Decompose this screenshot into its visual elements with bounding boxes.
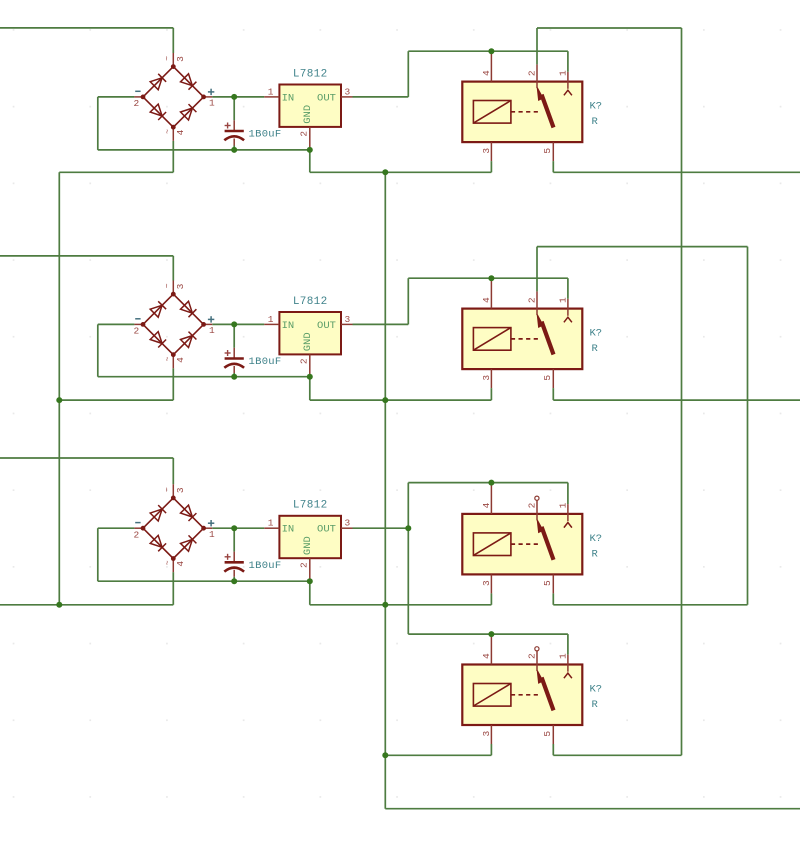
junction K4 coil xyxy=(488,631,494,637)
svg-text:~: ~ xyxy=(164,487,173,492)
svg-text:~: ~ xyxy=(164,560,173,565)
junction K2 coil xyxy=(488,275,494,281)
wire relay2 pin2 top xyxy=(537,246,748,248)
svg-text:4: 4 xyxy=(481,502,492,508)
wire relay K2 pin2 up xyxy=(536,247,538,292)
junction ground trunk K4 xyxy=(382,752,388,758)
svg-text:3: 3 xyxy=(481,375,492,381)
label D3 pin numbers xyxy=(133,487,215,567)
wire AC phase row1 top xyxy=(0,27,173,29)
junction AC left row3 xyxy=(56,602,62,608)
svg-text:4: 4 xyxy=(175,357,186,363)
svg-text:1: 1 xyxy=(558,653,569,659)
svg-text:3: 3 xyxy=(175,56,186,62)
relay K3 xyxy=(462,484,582,593)
svg-text:L7812: L7812 xyxy=(293,500,328,512)
wire relay K4 pin5 out xyxy=(553,754,681,756)
wire regulator U2 OUT xyxy=(353,323,409,325)
wire right rail vertical x682 xyxy=(681,28,683,755)
svg-text:1B0uF: 1B0uF xyxy=(249,356,282,368)
regulator U1 L7812 xyxy=(264,85,352,150)
wire relay K1 coil feed xyxy=(408,50,568,52)
wire relay K2 coil feed xyxy=(408,277,568,279)
junction C2 bottom xyxy=(231,374,237,380)
svg-text:2: 2 xyxy=(299,562,310,568)
svg-text:2: 2 xyxy=(527,70,538,76)
wire bridge D2 pin2 loop xyxy=(98,323,135,325)
svg-text:R: R xyxy=(592,343,599,355)
label K2 pin numbers xyxy=(481,297,569,381)
wire relay K3 pin5 down xyxy=(552,593,554,604)
svg-text:5: 5 xyxy=(542,580,553,586)
svg-text:3: 3 xyxy=(344,518,350,529)
wire bridge D2 pin4 to AC rail xyxy=(172,368,174,400)
svg-text:1: 1 xyxy=(558,70,569,76)
wire regulator U3 OUT xyxy=(353,527,409,529)
svg-text:2: 2 xyxy=(299,358,310,364)
svg-text:2: 2 xyxy=(133,530,139,541)
label D1 pin numbers xyxy=(133,56,215,136)
svg-text:2: 2 xyxy=(133,326,139,337)
svg-text:~: ~ xyxy=(164,283,173,288)
junction U2 GND xyxy=(307,374,313,380)
svg-text:~: ~ xyxy=(164,356,173,361)
label K3 pin numbers xyxy=(481,502,569,586)
svg-text:2: 2 xyxy=(527,502,538,508)
svg-text:2: 2 xyxy=(527,297,538,303)
wire ground rail row3 xyxy=(98,580,310,582)
svg-text:GND: GND xyxy=(302,105,314,124)
svg-text:2: 2 xyxy=(299,131,310,137)
wire bridge D2 pin3 drop xyxy=(172,256,174,281)
label D2 pin numbers xyxy=(133,283,215,363)
junction K1 coil xyxy=(488,48,494,54)
svg-text:1: 1 xyxy=(209,529,215,540)
svg-text:~: ~ xyxy=(164,56,173,61)
wire ground rail row2 xyxy=(98,376,310,378)
svg-text:3: 3 xyxy=(481,731,492,737)
wire relay K3 pin3 down xyxy=(490,593,492,604)
svg-text:3: 3 xyxy=(175,283,186,289)
wire DC+ D1 to regulator xyxy=(212,96,264,98)
svg-text:1: 1 xyxy=(268,86,274,97)
wire regulator U3 OUT riser xyxy=(407,483,409,634)
label K4 pin numbers xyxy=(481,653,569,737)
svg-text:IN: IN xyxy=(282,92,295,104)
wire GND drop row3 xyxy=(309,581,311,605)
wire bridge D1 pin4 to AC rail xyxy=(172,141,174,173)
svg-text:5: 5 xyxy=(542,375,553,381)
svg-text:L7812: L7812 xyxy=(293,296,328,308)
svg-text:4: 4 xyxy=(481,70,492,76)
junction K3 coil xyxy=(488,480,494,486)
svg-text:3: 3 xyxy=(481,148,492,154)
svg-text:4: 4 xyxy=(481,653,492,659)
svg-text:1: 1 xyxy=(268,518,274,529)
bridge rectifier D3 xyxy=(134,484,212,572)
wire AC phase row3 top xyxy=(0,457,173,459)
svg-text:2: 2 xyxy=(133,98,139,109)
svg-text:3: 3 xyxy=(175,487,186,493)
svg-text:5: 5 xyxy=(542,148,553,154)
wire relay K1 pin2 up xyxy=(536,28,538,64)
wire DC+ D2 to regulator xyxy=(212,323,264,325)
svg-text:L7812: L7812 xyxy=(293,68,328,80)
svg-text:4: 4 xyxy=(481,297,492,303)
bridge rectifier D1 xyxy=(134,53,212,141)
junction AC left row2 xyxy=(56,397,62,403)
wire bridge D1 pin3 drop xyxy=(172,28,174,53)
wire relay K3 pin5 out xyxy=(553,604,747,606)
wire relay K4 pin3 rail xyxy=(385,754,491,756)
wire bridge D3 pin4 to AC rail xyxy=(172,572,174,605)
wire relay1 pin2 to right rail xyxy=(537,27,682,29)
regulator U2 L7812 xyxy=(264,312,352,377)
wire relay K2 pin5 out xyxy=(553,399,800,401)
junction ground trunk row1 xyxy=(382,169,388,175)
relay K2 xyxy=(462,280,582,389)
wire AC shared left vertical xyxy=(58,172,60,605)
wire relay K1 pin5 out xyxy=(553,171,800,173)
svg-text:GND: GND xyxy=(302,536,314,555)
wire DC+ D3 to regulator xyxy=(212,527,264,529)
svg-text:OUT: OUT xyxy=(317,524,336,536)
wire relay K2 pin3 down xyxy=(490,388,492,400)
wire relay K2 pin1 drop xyxy=(567,278,569,299)
wire relay K4 pin5 down xyxy=(552,744,554,755)
svg-text:3: 3 xyxy=(481,580,492,586)
svg-text:K?: K? xyxy=(590,328,603,340)
wire bridge D3 pin2 loop xyxy=(98,527,135,529)
relay K1 xyxy=(462,53,582,162)
wire ground trunk vertical x385 xyxy=(384,172,386,808)
svg-text:OUT: OUT xyxy=(317,92,336,104)
wire relay K1 pin5 down xyxy=(552,161,554,172)
svg-text:1: 1 xyxy=(209,325,215,336)
junction U1 GND xyxy=(307,147,313,153)
svg-text:1: 1 xyxy=(209,98,215,109)
svg-text:1: 1 xyxy=(558,297,569,303)
junction C1 bottom xyxy=(231,147,237,153)
svg-text:2: 2 xyxy=(527,653,538,659)
wire regulator U1 OUT xyxy=(353,96,409,98)
junction ground trunk row3 xyxy=(382,602,388,608)
wire relay K2 pin5 down xyxy=(552,388,554,400)
junction U3 OUT tee xyxy=(405,525,411,531)
bridge rectifier D2 xyxy=(134,281,212,369)
svg-text:1B0uF: 1B0uF xyxy=(249,560,282,572)
svg-text:~: ~ xyxy=(164,129,173,134)
wire regulator U2 OUT riser xyxy=(407,278,409,324)
svg-text:3: 3 xyxy=(344,314,350,325)
wire ground rail row1 xyxy=(98,149,310,151)
wire relay K4 pin1 drop xyxy=(567,634,569,655)
svg-text:3: 3 xyxy=(344,86,350,97)
junction C1 top xyxy=(231,94,237,100)
svg-text:1: 1 xyxy=(268,314,274,325)
wire regulator U1 OUT riser xyxy=(407,51,409,97)
junction U3 GND xyxy=(307,578,313,584)
svg-text:K?: K? xyxy=(590,684,603,696)
svg-text:OUT: OUT xyxy=(317,320,336,332)
svg-text:1B0uF: 1B0uF xyxy=(249,129,282,141)
label K1 pin numbers xyxy=(481,70,569,154)
wire relay K1 pin3 down xyxy=(490,161,492,172)
svg-text:4: 4 xyxy=(175,129,186,135)
wire relay K1 pin1 drop xyxy=(567,51,569,72)
regulator U3 L7812 xyxy=(264,516,352,581)
wire bridge D1 pin2 loop xyxy=(98,96,135,98)
svg-text:R: R xyxy=(592,549,599,561)
wire relay K3 coil feed xyxy=(408,482,568,484)
svg-text:R: R xyxy=(592,116,599,128)
wire relay K4 pin3 down xyxy=(490,744,492,755)
wire GND drop row2 xyxy=(309,377,311,400)
svg-text:IN: IN xyxy=(282,524,295,536)
svg-text:5: 5 xyxy=(542,731,553,737)
svg-text:R: R xyxy=(592,699,599,711)
junction C3 top xyxy=(231,525,237,531)
wire AC phase row2 top xyxy=(0,255,173,257)
wire ground row1 to trunk xyxy=(310,171,492,173)
svg-text:K?: K? xyxy=(590,101,603,113)
wire ground row2 to trunk xyxy=(310,399,492,401)
wire GND drop row1 xyxy=(309,150,311,172)
wire bottom output xyxy=(385,808,800,810)
svg-text:GND: GND xyxy=(302,332,314,351)
capacitor C1 1B0uF xyxy=(224,97,244,150)
svg-text:IN: IN xyxy=(282,320,295,332)
wire relay K4 coil feed xyxy=(408,633,568,635)
wire relay K3 pin1 drop xyxy=(567,483,569,505)
junction C2 top xyxy=(231,321,237,327)
svg-text:4: 4 xyxy=(175,561,186,567)
wire right rail vertical x747 xyxy=(747,247,749,605)
svg-text:K?: K? xyxy=(590,533,603,545)
relay K4 xyxy=(462,636,582,745)
junction ground trunk row2 xyxy=(382,397,388,403)
wire bridge D3 pin3 drop xyxy=(172,458,174,484)
svg-text:1: 1 xyxy=(558,502,569,508)
capacitor C3 1B0uF xyxy=(224,528,244,581)
wire ground row3 to trunk xyxy=(310,604,492,606)
capacitor C2 1B0uF xyxy=(224,324,244,376)
junction C3 bottom xyxy=(231,578,237,584)
